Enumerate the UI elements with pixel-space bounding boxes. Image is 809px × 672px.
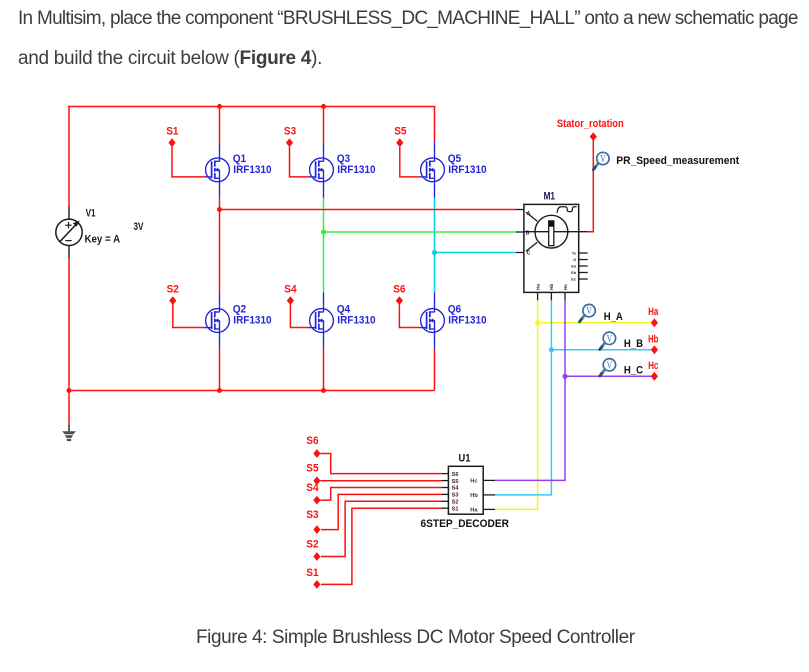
svg-text:S6: S6 [452,472,459,478]
svg-text:V: V [607,334,613,345]
svg-text:M1: M1 [544,190,555,202]
svg-text:S5: S5 [452,479,459,485]
svg-text:Hc: Hc [648,360,658,372]
svg-text:Eb: Eb [571,270,577,275]
svg-text:A: A [527,211,531,217]
svg-text:Stator_rotation: Stator_rotation [557,118,624,130]
svg-text:S2: S2 [452,500,459,506]
svg-text:S2: S2 [167,283,179,295]
svg-text:Ha: Ha [470,508,478,514]
svg-text:H_B: H_B [624,338,643,350]
svg-text:S4: S4 [306,482,319,494]
svg-text:Te: Te [572,251,577,256]
svg-text:S1: S1 [166,125,178,137]
svg-text:S5: S5 [394,125,406,137]
svg-text:PR_Speed_measurement: PR_Speed_measurement [616,155,739,167]
svg-text:S4: S4 [452,486,460,492]
svg-text:S3: S3 [284,125,296,137]
svg-text:6STEP_DECODER: 6STEP_DECODER [421,518,509,530]
svg-text:V: V [607,360,613,371]
svg-text:Ha: Ha [648,306,659,318]
svg-text:Key = A: Key = A [85,234,121,246]
svg-text:Hb: Hb [648,333,658,345]
svg-text:Hb: Hb [470,493,478,499]
svg-text:Ea: Ea [571,264,577,269]
svg-text:V: V [600,154,606,165]
svg-text:S1: S1 [306,567,318,579]
svg-text:S6: S6 [393,283,405,295]
svg-text:G: G [573,257,576,262]
svg-text:Ec: Ec [571,277,577,282]
svg-text:Ha: Ha [535,284,540,290]
svg-text:Hc: Hc [563,284,568,290]
svg-text:IRF1310: IRF1310 [233,315,271,327]
svg-text:H_A: H_A [604,311,623,323]
svg-text:S4: S4 [284,283,297,295]
svg-text:V: V [586,306,592,317]
svg-text:B: B [526,230,530,236]
svg-text:C: C [527,250,531,256]
svg-text:H_C: H_C [624,364,643,376]
svg-text:IRF1310: IRF1310 [233,164,271,176]
svg-text:IRF1310: IRF1310 [337,315,375,327]
svg-text:V1: V1 [86,208,96,220]
svg-text:S3: S3 [452,493,459,499]
svg-text:S6: S6 [306,435,318,447]
svg-text:IRF1310: IRF1310 [448,164,486,176]
svg-text:Hb: Hb [549,284,554,290]
svg-text:IRF1310: IRF1310 [337,164,375,176]
svg-text:S5: S5 [306,462,318,474]
svg-text:Hc: Hc [470,479,477,485]
svg-text:S2: S2 [306,539,318,551]
svg-text:U1: U1 [459,452,471,464]
svg-text:3V: 3V [134,221,144,233]
svg-text:IRF1310: IRF1310 [448,315,486,327]
svg-text:S3: S3 [306,509,318,521]
svg-text:S1: S1 [452,506,459,512]
